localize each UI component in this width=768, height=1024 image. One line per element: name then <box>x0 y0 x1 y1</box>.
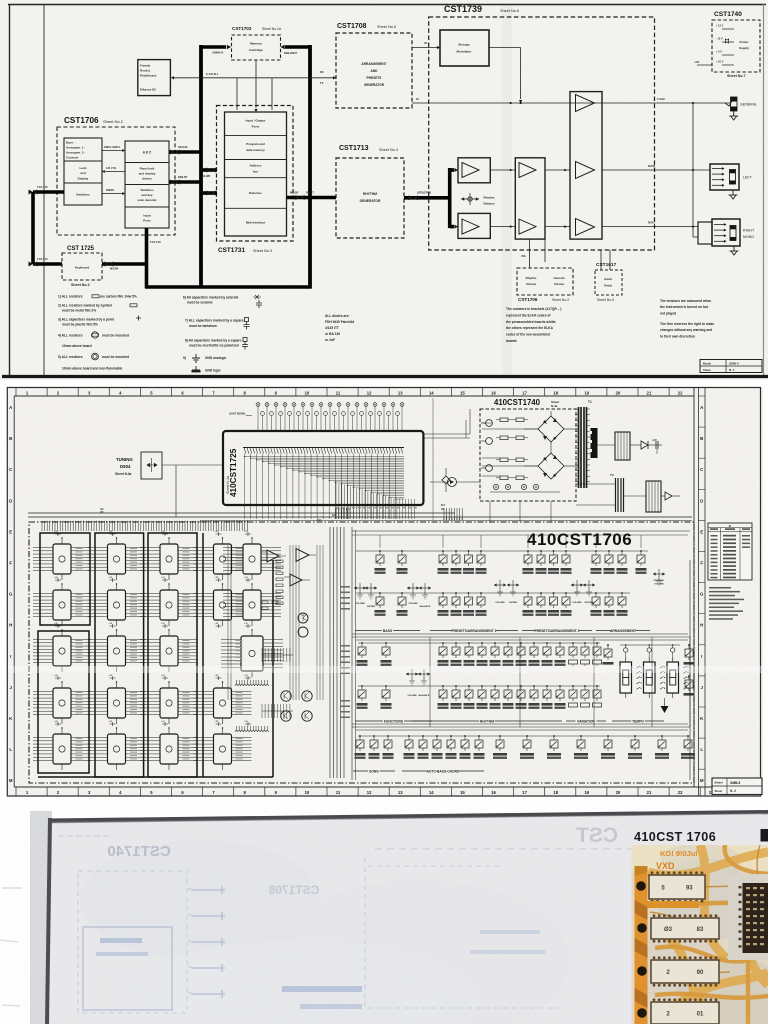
op-amp A1 <box>267 550 279 562</box>
switch band 1 row 1 bus <box>356 550 648 552</box>
psu extra wires <box>482 422 492 424</box>
IC U15 <box>160 734 178 764</box>
wire right channel <box>490 226 515 228</box>
bridge rectifier 2 <box>538 453 564 479</box>
wire SWC1-SWC4 <box>102 150 122 152</box>
ghost text bars B <box>282 986 362 992</box>
block CST1731 dashed border <box>217 106 294 242</box>
volume controls dashed box <box>517 268 573 295</box>
psu electrolytic caps <box>493 484 498 489</box>
page 1 left border <box>9 4 11 376</box>
wire pedalboard serial <box>173 77 336 79</box>
ground at LEFT <box>729 190 738 199</box>
psu small components <box>486 420 493 427</box>
left margin faint marks <box>2 887 22 889</box>
right margin band <box>698 388 700 797</box>
IC U14 <box>160 688 178 718</box>
block CST1708 dashed border <box>336 33 412 108</box>
ground at RIGHT <box>730 246 739 255</box>
IC U3 <box>53 636 71 666</box>
main horizontal bus <box>28 512 455 514</box>
preamp box B <box>458 213 490 238</box>
page 2 bottom ruler <box>15 787 17 796</box>
PCB chip IC1 <box>649 875 705 899</box>
bus arm D0-D7 into CST1731 <box>201 191 217 195</box>
trimmer general volume <box>653 573 665 575</box>
wire +10V out <box>697 64 712 66</box>
resistor column mid <box>276 560 283 563</box>
zener diode input <box>448 478 457 487</box>
psu drop wires <box>489 501 491 522</box>
variation units row2 <box>572 685 574 687</box>
jack GENERAL <box>731 97 738 102</box>
scan noise overlay <box>0 0 1 1</box>
op-amp A3 <box>290 574 302 586</box>
page 1 fold band <box>502 5 512 375</box>
IC U13 <box>160 636 178 666</box>
page 2 inner frame <box>13 396 15 787</box>
bridge rectifier 1 <box>538 416 564 442</box>
7-segment displays <box>620 662 632 693</box>
group labels band 2 <box>355 720 432 722</box>
trimmer rhythm balance <box>461 198 479 200</box>
psu wires <box>482 428 538 430</box>
keyboard drop labels fuzz <box>335 507 338 508</box>
page 1 bottom border <box>2 375 768 378</box>
voltage regulator box <box>615 432 630 460</box>
page 1: block diagram sheet <box>0 0 768 380</box>
rhythm bus split <box>448 168 452 228</box>
display drive components <box>624 648 628 652</box>
rectifier arrow <box>641 441 648 449</box>
wire L/D LYN <box>105 171 125 173</box>
wire 4C to storage modulator <box>412 47 440 49</box>
keyboard right edge wires <box>423 433 470 435</box>
right bus verticals <box>329 527 331 778</box>
trimmer volume guitar <box>494 584 506 586</box>
band separator bus 2 <box>352 723 688 725</box>
IC U18 <box>243 590 261 620</box>
PCB big chip <box>743 883 768 953</box>
PCB big chip white zone <box>728 874 768 960</box>
switch band 2 row 1 <box>358 642 600 644</box>
display aux switches <box>607 644 609 646</box>
switch band 3 <box>358 735 690 737</box>
wire serial drop 1 <box>236 78 238 110</box>
data bus vertical right <box>308 45 312 289</box>
connector arcs row 2 <box>235 731 238 732</box>
IC U9 <box>108 688 126 718</box>
wire modulator output <box>489 47 521 49</box>
storage modulator box <box>440 30 489 66</box>
page 3: photo page with PCB <box>0 797 768 1024</box>
mains connector <box>591 428 598 458</box>
rectifier arrow 2 <box>665 492 672 500</box>
transistor pair Q1 Q2 <box>298 613 308 623</box>
legend table <box>708 523 752 580</box>
page 1 title block <box>700 360 762 373</box>
separator wire x433 <box>432 398 434 520</box>
transistor quad <box>281 691 291 701</box>
left bus label column <box>341 586 350 588</box>
PCB grey patches <box>657 858 753 942</box>
CST1706 ADC box <box>125 141 169 228</box>
PCB chip IC2 <box>651 918 719 939</box>
regulator box 2 <box>646 481 661 512</box>
page 3 top border <box>48 810 768 823</box>
diode junction <box>442 476 450 484</box>
bus arm to memory cartridge left <box>201 45 226 49</box>
connector RIGHT MONO <box>698 222 712 244</box>
ghost voltage stubs <box>192 889 225 891</box>
page 1 top border <box>8 4 766 6</box>
page 3 sheet <box>47 812 768 1024</box>
IC array boxes <box>40 533 90 625</box>
IC U10 <box>108 734 126 764</box>
band 3 wide units <box>499 735 501 737</box>
tempo down arrow <box>661 706 669 713</box>
decoupling parts <box>55 532 61 536</box>
switch band1 row1 units <box>379 550 381 552</box>
bus wire DB0-D7 <box>169 180 201 184</box>
vertical link wires switch area <box>429 637 431 727</box>
group labels band 3 <box>353 770 395 772</box>
IC U16 <box>214 544 232 574</box>
bus wire keyboard to decoder <box>102 262 147 266</box>
page 2: main schematic sheet 410CST1706 <box>0 381 768 800</box>
block CST1740 dashed border <box>712 20 760 72</box>
transformer T3 <box>615 478 617 512</box>
IC U12 <box>160 590 178 620</box>
CST1706 panel controls box <box>64 138 102 205</box>
lamp row <box>256 403 260 407</box>
keyboard output drops <box>244 457 246 520</box>
PCB orange swooshes <box>648 845 768 1024</box>
block pedalboard <box>138 60 171 96</box>
midi bus out <box>287 196 337 200</box>
preamp box A <box>458 158 490 183</box>
bus arm A0-A15 into CST1731 <box>201 168 217 172</box>
PCB fine traces <box>648 845 760 975</box>
CST1731 CPU box <box>225 112 287 236</box>
bus wire input ports down <box>145 228 149 288</box>
IC U2 <box>53 590 71 620</box>
switch band 1 row 2 bus <box>356 592 630 594</box>
switch band 2 row 2 <box>358 685 600 687</box>
page 3 mottling <box>80 840 320 960</box>
connector arcs row 1 <box>235 685 238 686</box>
trimmer volume balance <box>406 673 418 675</box>
transformer T1 <box>578 407 580 488</box>
block CST1706 dashed border <box>57 127 175 235</box>
ground at GENERAL <box>729 111 738 120</box>
page 3 left border <box>45 818 52 1024</box>
bus wire vertical left <box>31 192 35 264</box>
IC U1 <box>53 544 71 574</box>
IC U19 decoder <box>241 636 263 671</box>
wire serial drop 2 <box>271 78 273 110</box>
address bus vertical left <box>199 45 203 289</box>
wire tuning to keyboard <box>162 464 223 466</box>
ghost mirrored CST1708 <box>268 883 319 897</box>
filter cap <box>655 441 657 449</box>
rhythm bus out <box>404 196 450 200</box>
block 410CST1740 dashed border <box>480 409 576 501</box>
IC U7 <box>108 590 126 620</box>
group labels band 1 <box>355 630 420 632</box>
IC U8 <box>108 636 126 666</box>
ghost dashed row upper <box>375 848 382 850</box>
IC U6 <box>108 544 126 574</box>
signal line AGC <box>412 102 731 104</box>
legend notes <box>709 587 731 589</box>
bus wire T1/1-T10 to keyboard <box>33 262 62 266</box>
IC U17 <box>243 544 261 574</box>
wire left channel <box>490 169 515 171</box>
PCB pale top band <box>632 845 768 871</box>
ghost dashes top left <box>58 835 64 837</box>
wire SW/3S <box>102 193 125 195</box>
scan light band <box>8 666 763 673</box>
IC U5 <box>53 734 71 764</box>
ghost mirrored CST big <box>576 824 618 847</box>
page 1 right border <box>763 4 765 376</box>
wire cartridge to CPU <box>255 60 257 108</box>
mid amp bank <box>515 158 545 239</box>
block CST1713 dashed border <box>336 158 404 238</box>
trimmer volume balance left <box>407 587 419 589</box>
wire output node vertical <box>692 103 694 237</box>
block CST1725 keyboard dashed box <box>62 253 102 280</box>
ghost dashed box A <box>78 871 187 1013</box>
IC U19 <box>214 734 232 764</box>
bus wire T1/1-T16 to switches <box>33 190 64 194</box>
top feed bus of switch panel <box>352 530 690 532</box>
page 1 margin line <box>43 4 45 375</box>
bus loop bottom <box>145 285 312 289</box>
connector LEFT <box>710 164 739 190</box>
page 2 top ruler <box>15 388 17 397</box>
block CST1739 dashed border <box>429 17 655 250</box>
IC U4 <box>53 688 71 718</box>
variation units row1 <box>572 642 574 644</box>
band separator bus <box>352 633 688 635</box>
IC U11 <box>160 544 178 574</box>
block 410CST1725 keyboard matrix <box>223 431 423 505</box>
photo caption partial letter <box>761 829 768 842</box>
segment resistor columns <box>637 666 640 668</box>
ghost mirrored CST1740 <box>107 843 170 860</box>
IC U18 <box>214 688 232 718</box>
PCB chip IC3 <box>651 960 719 983</box>
op-amp A2 <box>296 549 309 562</box>
keyboard contact comb <box>243 447 404 449</box>
trimmer volume guitar left <box>354 587 366 589</box>
bus arm to memory cartridge right <box>285 45 310 49</box>
IC U17 <box>214 590 232 620</box>
block 410CST1706 dash-dot border <box>29 522 694 783</box>
bus wire SD-D4A <box>169 150 201 154</box>
PCB chip IC4 <box>651 1002 719 1024</box>
trimmer volume sustain <box>571 584 583 586</box>
bus tick field <box>41 521 43 531</box>
trim network below transistors <box>261 648 263 662</box>
page 2 title block <box>712 778 762 795</box>
ic area interconnect verticals <box>227 545 229 700</box>
keyboard matrix fan <box>244 454 246 457</box>
pin label fuzz <box>76 548 83 549</box>
ghost inner box <box>83 927 172 1010</box>
PCB orange edge bar <box>635 866 648 1024</box>
volume control wires <box>528 239 530 268</box>
ghost dashed box B <box>364 858 366 1010</box>
small parts near opamps <box>262 601 268 603</box>
switch band1 row2 units <box>379 592 381 594</box>
power amp bank <box>570 92 602 240</box>
page 2 outer frame <box>7 388 760 797</box>
